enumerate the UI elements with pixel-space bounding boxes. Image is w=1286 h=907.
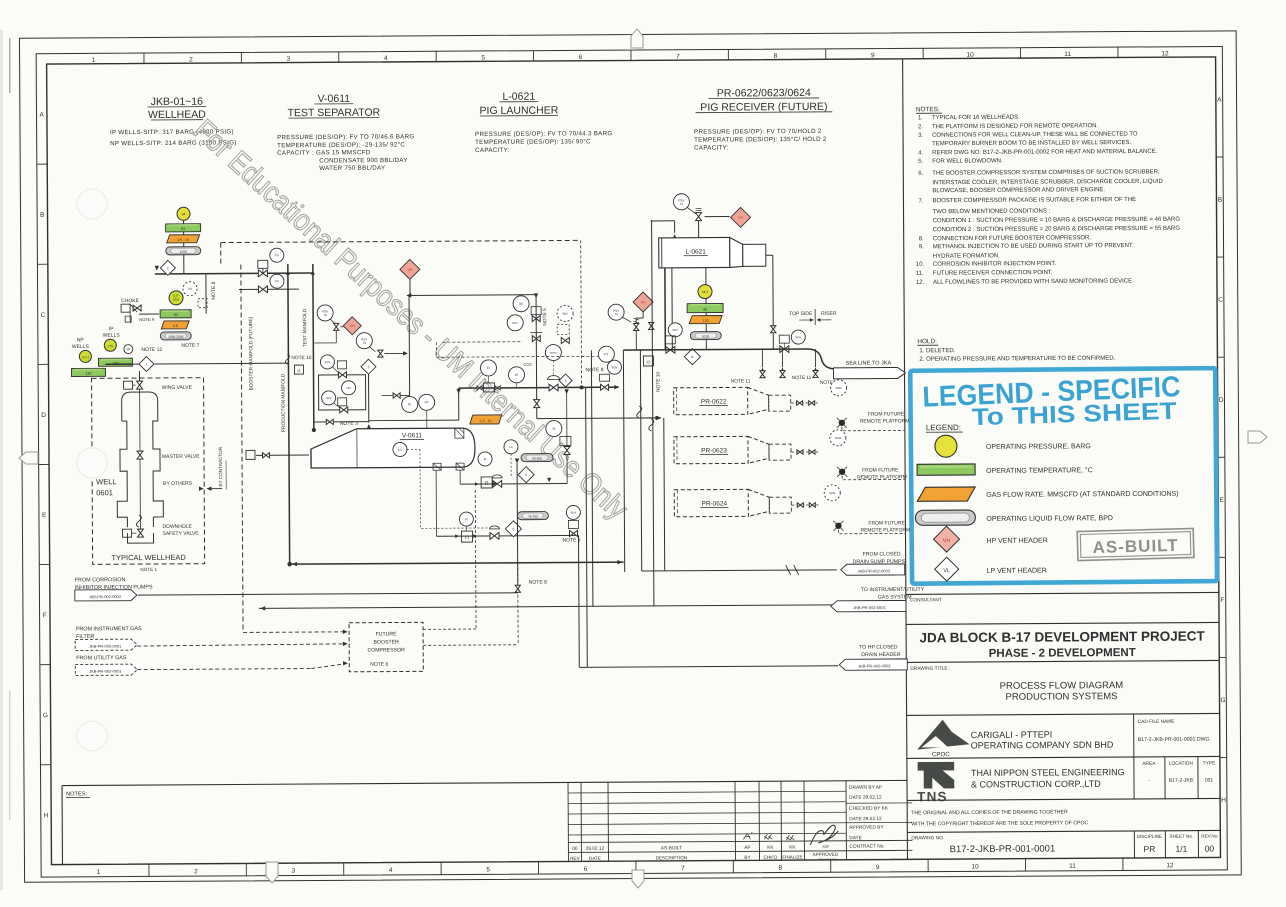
svg-text:CAD FILE NAME: CAD FILE NAME bbox=[1138, 719, 1175, 725]
temperature bar 93 bbox=[166, 224, 201, 232]
svg-text:12: 12 bbox=[1161, 50, 1169, 57]
svg-text:G: G bbox=[43, 712, 48, 719]
svg-text:NOTE 12: NOTE 12 bbox=[141, 347, 162, 353]
svg-text:AREA: AREA bbox=[1142, 761, 1156, 767]
wire flow stack riser bbox=[183, 221, 185, 274]
svg-text:PR-0624: PR-0624 bbox=[701, 500, 727, 507]
receiver PR-0622 dashed bbox=[674, 387, 748, 414]
closed drain line bbox=[642, 570, 837, 571]
wing valve bbox=[137, 381, 143, 385]
svg-text:CHECKED BY KK: CHECKED BY KK bbox=[849, 806, 889, 812]
legend gas flow rate symbol bbox=[917, 487, 975, 501]
svg-text:B17-2-JKB: B17-2-JKB bbox=[1169, 778, 1194, 784]
SDV bubble upper bbox=[320, 355, 334, 369]
svg-text:JKB-01~16: JKB-01~16 bbox=[151, 96, 203, 108]
svg-text:BY OTHERS: BY OTHERS bbox=[163, 481, 193, 487]
svg-text:7: 7 bbox=[676, 53, 680, 60]
svg-text:PR: PR bbox=[1143, 844, 1155, 854]
svg-text:3: 3 bbox=[367, 365, 369, 369]
svg-text:E: E bbox=[1220, 497, 1225, 504]
svg-text:THE PLATFORM IS DESIGNED FOR R: THE PLATFORM IS DESIGNED FOR REMOTE OPER… bbox=[932, 123, 1098, 130]
svg-text:TYPE: TYPE bbox=[1203, 761, 1216, 767]
approval signature bbox=[810, 825, 838, 845]
svg-text:70: 70 bbox=[680, 202, 684, 206]
svg-text:FI: FI bbox=[465, 517, 468, 521]
svg-text:L-0621: L-0621 bbox=[686, 249, 707, 256]
svg-text:SBV: SBV bbox=[562, 312, 568, 316]
svg-text:FI: FI bbox=[487, 366, 490, 370]
svg-text:DRAIN HEADER: DRAIN HEADER bbox=[861, 652, 900, 658]
svg-text:PRESSURE (DES/OP): FV TO 70/HO: PRESSURE (DES/OP): FV TO 70/HOLD 2 bbox=[694, 128, 822, 136]
svg-text:10: 10 bbox=[967, 52, 975, 59]
svg-text:AS-BUILT: AS-BUILT bbox=[661, 845, 682, 851]
svg-text:PI: PI bbox=[408, 403, 411, 407]
svg-text:6.: 6. bbox=[918, 171, 923, 177]
svg-text:ALL FLOWLINES TO BE PROVIDED W: ALL FLOWLINES TO BE PROVIDED WITH SAND M… bbox=[933, 278, 1134, 285]
svg-text:F: F bbox=[1220, 597, 1224, 604]
svg-text:8: 8 bbox=[691, 355, 693, 359]
svg-text:4: 4 bbox=[389, 867, 393, 874]
svg-text:PROCESS FLOW DIAGRAM: PROCESS FLOW DIAGRAM bbox=[1000, 680, 1124, 692]
svg-text:REV.No: REV.No bbox=[1201, 833, 1218, 838]
svg-text:B17-2-JKB-PR-001-0001: B17-2-JKB-PR-001-0001 bbox=[950, 843, 1056, 855]
wellhead tree outline bbox=[117, 392, 164, 543]
svg-text:PRESSURE (DES/OP): FV TO 70/44: PRESSURE (DES/OP): FV TO 70/44.3 BARG bbox=[475, 130, 612, 138]
scan edge artifacts bbox=[0, 30, 3, 890]
diamond note 1 bbox=[139, 356, 154, 371]
svg-text:IP: IP bbox=[109, 326, 114, 332]
svg-text:0.5 - 15: 0.5 - 15 bbox=[177, 238, 189, 242]
svg-text:2: 2 bbox=[194, 868, 198, 875]
dashed control line upper bbox=[442, 341, 522, 343]
svg-text:B: B bbox=[40, 212, 44, 219]
dashed feed C bbox=[137, 669, 311, 670]
svg-text:CHK'D: CHK'D bbox=[763, 855, 778, 860]
svg-text:29.02.12: 29.02.12 bbox=[586, 846, 605, 852]
svg-text:VL: VL bbox=[943, 568, 950, 574]
note 11 connection 2 bbox=[781, 349, 783, 367]
svg-text:11: 11 bbox=[1064, 51, 1071, 58]
svg-text:HOLD:: HOLD: bbox=[917, 338, 937, 345]
fold mark bottom bbox=[266, 862, 278, 883]
svg-text:2.: 2. bbox=[918, 124, 923, 130]
svg-text:NOTE 8: NOTE 8 bbox=[529, 580, 547, 586]
temperature bar 90 launcher bbox=[687, 304, 723, 313]
vent drop with dot bbox=[580, 240, 583, 384]
svg-text:4.: 4. bbox=[918, 150, 923, 156]
svg-text:TEMPORARY BURNER BOOM TO BE IN: TEMPORARY BURNER BOOM TO BE INSTALLED BY… bbox=[932, 140, 1131, 147]
svg-text:A: A bbox=[1217, 96, 1222, 103]
flow element on gas line bbox=[484, 383, 495, 392]
fold mark left bbox=[19, 452, 38, 464]
svg-text:SDM: SDM bbox=[835, 386, 842, 390]
svg-text:4: 4 bbox=[384, 55, 388, 62]
XV PCV riser bbox=[535, 295, 538, 388]
note 8 dashed drop bbox=[517, 563, 519, 583]
svg-text:COMPRESSOR: COMPRESSOR bbox=[367, 647, 405, 653]
punch hole top bbox=[77, 189, 107, 219]
PSV 70 bubble launcher bbox=[673, 194, 689, 210]
LC bubble bbox=[504, 440, 518, 454]
svg-text:APPROVED BY: APPROVED BY bbox=[849, 825, 884, 831]
svg-text:SDV: SDV bbox=[612, 365, 618, 369]
svg-text:WING VALVE: WING VALVE bbox=[162, 385, 193, 391]
svg-text:203.4: 203.4 bbox=[82, 355, 89, 359]
svg-text:BY CONTRACTOR: BY CONTRACTOR bbox=[218, 446, 223, 486]
svg-text:THE ORIGINAL AND ALL COPIES OF: THE ORIGINAL AND ALL COPIES OF THE DRAWI… bbox=[911, 809, 1068, 816]
svg-text:5: 5 bbox=[525, 473, 527, 477]
svg-text:SDM: SDM bbox=[835, 436, 842, 440]
svg-text:APPROVED: APPROVED bbox=[813, 852, 839, 857]
vessel top hatched box bbox=[455, 428, 464, 438]
svg-text:CPOC: CPOC bbox=[932, 751, 950, 758]
fold mark top bbox=[631, 29, 643, 48]
VH diamond mid bbox=[343, 317, 361, 335]
svg-text:94: 94 bbox=[182, 212, 186, 216]
svg-text:VH: VH bbox=[407, 268, 412, 272]
svg-text:JDA BLOCK B-17 DEVELOPMENT PRO: JDA BLOCK B-17 DEVELOPMENT PROJECT bbox=[919, 629, 1205, 646]
corrosion inhibitor riser bbox=[516, 463, 519, 593]
svg-text:90-900: 90-900 bbox=[532, 457, 542, 461]
svg-text:JKB-PR-002-0003: JKB-PR-002-0003 bbox=[857, 568, 890, 573]
svg-text:PIG LAUNCHER: PIG LAUNCHER bbox=[479, 105, 558, 117]
vent valve bbox=[634, 324, 639, 328]
svg-text:PRODUCTION MANIFOLD: PRODUCTION MANIFOLD bbox=[281, 373, 287, 432]
wire psv2 to riser bbox=[384, 352, 406, 354]
hp closed drain route bbox=[577, 535, 580, 667]
downhole safety valve bbox=[137, 529, 143, 533]
svg-text:JKB-PR-002-0001: JKB-PR-002-0001 bbox=[853, 605, 886, 610]
svg-text:SDV: SDV bbox=[325, 360, 331, 364]
receiver train 1 bbox=[791, 402, 818, 404]
legend liquid flow rate symbol bbox=[915, 510, 975, 525]
svg-text:70: 70 bbox=[614, 312, 618, 316]
svg-text:PRODUCTION SYSTEMS: PRODUCTION SYSTEMS bbox=[1006, 691, 1118, 703]
wire wells flowline to manifold bbox=[154, 362, 288, 365]
svg-text:JKB-PR-002-0002: JKB-PR-002-0002 bbox=[89, 594, 122, 599]
svg-text:C: C bbox=[41, 312, 46, 319]
svg-text:THAI NIPPON STEEL ENGINEERING: THAI NIPPON STEEL ENGINEERING bbox=[971, 767, 1125, 778]
dashed SBV bubble bbox=[557, 305, 573, 321]
right row letter band bbox=[1216, 156, 1223, 158]
punch hole middle bbox=[77, 448, 107, 478]
svg-text:OPERATING LIQUID FLOW RATE, BP: OPERATING LIQUID FLOW RATE, BPD bbox=[986, 515, 1113, 523]
svg-text:CONSULTANT: CONSULTANT bbox=[910, 597, 942, 603]
test area dashed boundary bbox=[221, 240, 580, 242]
arrow line into risers bbox=[628, 417, 661, 419]
svg-text:LOCATION: LOCATION bbox=[1169, 761, 1194, 767]
svg-text:SHEET No.: SHEET No. bbox=[1169, 834, 1193, 839]
svg-text:4: 4 bbox=[565, 379, 567, 383]
svg-text:3-8: 3-8 bbox=[173, 324, 178, 328]
svg-text:DATE 29.02.12: DATE 29.02.12 bbox=[849, 816, 882, 822]
svg-text:001: 001 bbox=[1205, 778, 1214, 784]
dashed manifold drop bbox=[474, 490, 477, 629]
svg-text:SDV: SDV bbox=[326, 396, 332, 400]
temperature bar 110 bbox=[71, 368, 105, 376]
svg-text:AS-BUILT: AS-BUILT bbox=[1092, 536, 1179, 557]
svg-text:TEMPERATURE (DES/OP): 135/ 90°: TEMPERATURE (DES/OP): 135/ 90°C bbox=[475, 138, 591, 146]
svg-text:SDV: SDV bbox=[672, 328, 678, 332]
manifold inlet arrows bbox=[286, 271, 289, 275]
legend operating temperature symbol bbox=[917, 464, 975, 475]
svg-text:PR-0623: PR-0623 bbox=[701, 447, 727, 454]
long utility line bbox=[259, 605, 833, 609]
valve on riser 652 bbox=[649, 322, 654, 326]
wire vertical gas header A bbox=[586, 387, 588, 667]
svg-text:20.0: 20.0 bbox=[173, 298, 179, 302]
riser line 1 bbox=[623, 350, 624, 572]
top grid number band ticks and numbers bbox=[143, 53, 145, 63]
svg-text:JKB-PR-002-0001: JKB-PR-002-0001 bbox=[89, 669, 122, 674]
svg-text:5: 5 bbox=[486, 866, 490, 873]
svg-text:LP VENT HEADER: LP VENT HEADER bbox=[987, 568, 1047, 575]
liquid flow pill 1000-2500 bbox=[160, 332, 191, 340]
wellhead centerline bbox=[139, 381, 142, 530]
svg-text:JKB-PR-002-0001: JKB-PR-002-0001 bbox=[89, 644, 122, 649]
svg-text:VH: VH bbox=[641, 300, 646, 304]
svg-text:3: 3 bbox=[292, 868, 296, 875]
svg-text:FROM FUTURE: FROM FUTURE bbox=[862, 467, 899, 473]
svg-text:KK: KK bbox=[789, 845, 796, 851]
svg-text:DRAWING TITLE :: DRAWING TITLE : bbox=[910, 666, 950, 672]
svg-text:TYPICAL FOR 16 WELLHEADS.: TYPICAL FOR 16 WELLHEADS. bbox=[932, 115, 1020, 122]
svg-text:275: 275 bbox=[108, 344, 114, 348]
svg-text:NOTE 8: NOTE 8 bbox=[585, 367, 603, 373]
pressure bubble 94 bbox=[177, 207, 190, 220]
PDRC bubble top bbox=[545, 344, 561, 360]
svg-text:C: C bbox=[1218, 297, 1223, 304]
svg-text:WELLS: WELLS bbox=[103, 333, 121, 339]
svg-text:NOTE 10: NOTE 10 bbox=[291, 355, 311, 361]
svg-text:REMOTE PLATFORM: REMOTE PLATFORM bbox=[860, 418, 910, 424]
PT bubble bbox=[419, 394, 435, 410]
svg-text:NOTE 6: NOTE 6 bbox=[370, 662, 388, 668]
svg-text:PT: PT bbox=[425, 401, 429, 405]
diamond 3 bbox=[361, 359, 376, 374]
svg-text:WELLHEAD: WELLHEAD bbox=[148, 109, 206, 121]
main sea line bbox=[623, 349, 809, 350]
note 11 connection 1 bbox=[761, 349, 763, 367]
svg-text:FROM INSTRUMENT GAS: FROM INSTRUMENT GAS bbox=[76, 626, 142, 632]
svg-text:FI: FI bbox=[484, 457, 487, 461]
svg-text:B17-2-JKB-PR-001-0001.DWG: B17-2-JKB-PR-001-0001.DWG bbox=[1138, 737, 1210, 743]
drawn-by block bbox=[846, 802, 912, 804]
svg-text:L-0621: L-0621 bbox=[502, 91, 535, 103]
svg-text:8: 8 bbox=[778, 865, 782, 872]
svg-text:AT: AT bbox=[515, 373, 519, 377]
wire psv1 tail bbox=[335, 331, 337, 343]
svg-text:11.: 11. bbox=[916, 271, 924, 277]
svg-text:2. OPERATING PRESSURE AND TEM: 2. OPERATING PRESSURE AND TEMPERATURE TO… bbox=[919, 356, 1115, 363]
svg-text:90: 90 bbox=[174, 313, 178, 317]
svg-text:75-750: 75-750 bbox=[528, 515, 538, 519]
valve launcher right bbox=[780, 346, 785, 353]
svg-text:NOTE 10: NOTE 10 bbox=[655, 372, 661, 392]
svg-text:LEGEND:: LEGEND: bbox=[926, 423, 961, 432]
svg-text:METHANOL INJECTION TO BE USED: METHANOL INJECTION TO BE USED DURING STA… bbox=[933, 243, 1133, 250]
wire stub under flowline bbox=[205, 274, 207, 314]
riser line 3 bbox=[652, 220, 654, 606]
svg-text:0601: 0601 bbox=[96, 488, 113, 497]
svg-text:1000-2500: 1000-2500 bbox=[168, 335, 183, 339]
svg-text:PCV: PCV bbox=[512, 321, 518, 325]
receiver train 3 bbox=[791, 504, 818, 506]
valve on flowline bbox=[258, 270, 263, 277]
svg-text:CORROSION INHIBITOR INJECTION: CORROSION INHIBITOR INJECTION POINT. bbox=[933, 261, 1057, 268]
branch down to SI bbox=[566, 389, 569, 483]
control valve lower bbox=[490, 533, 495, 540]
svg-text:CONNECTION FOR FUTURE BOOSTER: CONNECTION FOR FUTURE BOOSTER COMPRESSOR… bbox=[933, 235, 1092, 242]
svg-text:A: A bbox=[40, 112, 45, 119]
svg-text:DATE: DATE bbox=[589, 856, 601, 861]
svg-text:SEA LINE TO JKA: SEA LINE TO JKA bbox=[845, 360, 891, 366]
svg-text:TO INSTRUMENT/UTILITY: TO INSTRUMENT/UTILITY bbox=[861, 587, 925, 593]
svg-text:WATER 750 BBL/DAY: WATER 750 BBL/DAY bbox=[319, 165, 385, 172]
receiver train 2 bbox=[791, 451, 818, 453]
pill 75-750 bbox=[517, 512, 548, 520]
svg-text:CONTRACTOR: CONTRACTOR bbox=[818, 857, 836, 861]
valve on end line bbox=[771, 326, 776, 330]
svg-text:TEMPERATURE (DES/OP): -29-135/: TEMPERATURE (DES/OP): -29-135/ 92°C bbox=[277, 141, 405, 149]
svg-text:FUTURE RECEIVER CONNECTION POI: FUTURE RECEIVER CONNECTION POINT. bbox=[933, 270, 1053, 277]
dashed XV bubble bbox=[183, 282, 197, 296]
svg-text:NOTE 8: NOTE 8 bbox=[211, 281, 217, 299]
svg-text:44.3: 44.3 bbox=[702, 290, 709, 294]
wire psv to vessel bbox=[698, 221, 700, 238]
SDV skid box bbox=[319, 375, 366, 410]
reviewer initials scribbles bbox=[743, 832, 752, 839]
PSV 70 bubble vent bbox=[608, 304, 624, 320]
svg-text:Π: Π bbox=[485, 481, 489, 487]
svg-text:REMOTE PLATFORM: REMOTE PLATFORM bbox=[860, 527, 910, 533]
svg-text:9: 9 bbox=[876, 864, 880, 871]
wire wells to diamond bbox=[105, 363, 132, 365]
svg-text:TEST SEPARATOR: TEST SEPARATOR bbox=[288, 107, 381, 120]
svg-text:00: 00 bbox=[1205, 844, 1215, 854]
svg-text:1/1: 1/1 bbox=[1175, 844, 1187, 854]
note 3 valve bbox=[314, 421, 369, 423]
svg-text:JKB-PR-002-0003: JKB-PR-002-0003 bbox=[858, 663, 891, 668]
svg-text:1: 1 bbox=[92, 57, 96, 64]
svg-text:5.: 5. bbox=[918, 159, 923, 165]
svg-text:2: 2 bbox=[189, 56, 193, 63]
pill 90-900 bbox=[521, 454, 553, 462]
relief valve launcher bbox=[696, 213, 702, 217]
svg-text:SSP: SSP bbox=[822, 845, 830, 849]
svg-text:6: 6 bbox=[579, 54, 583, 61]
svg-text:CAPACITY : GAS 15 MMSCFD: CAPACITY : GAS 15 MMSCFD bbox=[277, 149, 371, 157]
revision table bbox=[568, 791, 846, 793]
svg-text:NOTE 5: NOTE 5 bbox=[542, 308, 548, 326]
svg-text:NOTES:: NOTES: bbox=[66, 791, 87, 797]
svg-text:7.: 7. bbox=[918, 198, 923, 204]
svg-text:PHASE - 2 DEVELOPMENT: PHASE - 2 DEVELOPMENT bbox=[989, 647, 1136, 660]
wire diamond to tree bbox=[138, 371, 140, 381]
wire vertical gas header B bbox=[591, 350, 593, 606]
level valve bbox=[493, 481, 498, 488]
svg-text:SP: SP bbox=[126, 347, 130, 351]
svg-text:9.: 9. bbox=[919, 244, 924, 250]
lateral to risers bbox=[537, 417, 660, 420]
svg-text:FROM FUTURE: FROM FUTURE bbox=[868, 520, 905, 526]
svg-text:GAS SYSTEM: GAS SYSTEM bbox=[878, 594, 912, 600]
svg-text:CAPACITY:: CAPACITY: bbox=[475, 147, 510, 154]
SP bubble and note 12 bbox=[124, 345, 133, 354]
svg-text:70: 70 bbox=[363, 341, 367, 345]
svg-text:RISER: RISER bbox=[821, 311, 837, 317]
svg-text:CONDENSATE 900 BBL/DAY: CONDENSATE 900 BBL/DAY bbox=[319, 157, 408, 165]
svg-text:D: D bbox=[1219, 397, 1224, 404]
svg-text:WELL: WELL bbox=[96, 477, 116, 486]
master valve bbox=[137, 451, 143, 455]
TNS logo bbox=[918, 762, 954, 788]
SDV on gas line bbox=[607, 360, 621, 374]
flow element box lower bbox=[461, 531, 472, 542]
wire corrosion inhibitor line bbox=[138, 593, 518, 595]
production manifold line bbox=[288, 264, 290, 564]
svg-text:TYPICAL WELLHEAD: TYPICAL WELLHEAD bbox=[111, 553, 186, 562]
svg-text:NOTE 9: NOTE 9 bbox=[139, 317, 155, 322]
control valve with diaphragm bbox=[549, 384, 554, 391]
note 11 connection 3 bbox=[814, 349, 816, 367]
svg-text:PDRC: PDRC bbox=[550, 352, 557, 355]
svg-text:TEMPERATURE (DES/OP): 135°C/: TEMPERATURE (DES/OP): 135°C/ HOLD 2 bbox=[694, 136, 827, 144]
vessel boot boxes bbox=[433, 463, 441, 470]
svg-text:H: H bbox=[1221, 797, 1226, 804]
riser line 2 bbox=[640, 350, 641, 571]
svg-text:CONNECTIONS FOR WELL CLEAN-UP.: CONNECTIONS FOR WELL CLEAN-UP. THESE WIL… bbox=[932, 131, 1138, 138]
HP vent diamond VH bbox=[409, 279, 411, 295]
svg-text:VH: VH bbox=[943, 538, 951, 544]
wire vent riser 410 bbox=[408, 295, 411, 395]
svg-text:11: 11 bbox=[1069, 863, 1076, 870]
svg-text:8: 8 bbox=[774, 53, 778, 60]
long header line lower bbox=[290, 562, 624, 564]
svg-text:93: 93 bbox=[181, 227, 185, 231]
liquid flow pill 1650 bbox=[166, 247, 201, 255]
svg-text:1650: 1650 bbox=[180, 250, 187, 254]
svg-text:SI: SI bbox=[552, 427, 555, 431]
receiver PR-0623 dashed bbox=[674, 436, 748, 463]
svg-text:OPERATING TEMPERATURE, °C: OPERATING TEMPERATURE, °C bbox=[986, 466, 1093, 475]
svg-text:CI: CI bbox=[646, 359, 650, 364]
svg-text:12: 12 bbox=[1166, 862, 1174, 869]
svg-text:1: 1 bbox=[145, 362, 147, 366]
svg-text:BOOSTER MANIFOLD (FUTURE): BOOSTER MANIFOLD (FUTURE) bbox=[248, 316, 254, 390]
water outlet branch bbox=[436, 534, 578, 537]
gas flow tag 0.5-15 bbox=[167, 235, 200, 243]
svg-text:F: F bbox=[43, 612, 47, 619]
diamond note 2 bbox=[160, 260, 175, 275]
svg-text:5: 5 bbox=[481, 55, 485, 62]
svg-text:NOTE 7: NOTE 7 bbox=[181, 343, 199, 349]
wire launcher outlet legs bbox=[664, 268, 667, 350]
fold mark bottom center bbox=[632, 870, 644, 888]
svg-text:2: 2 bbox=[167, 266, 169, 270]
vent line to VH header bbox=[407, 294, 536, 297]
svg-text:TOP SIDE: TOP SIDE bbox=[789, 311, 813, 317]
svg-text:CAPACITY:: CAPACITY: bbox=[694, 144, 729, 151]
pressure bubble 6.0-20.0 bbox=[169, 291, 183, 305]
svg-text:REV: REV bbox=[570, 856, 580, 861]
injection valve into vessel bbox=[256, 454, 309, 456]
svg-text:DRAWING NO.: DRAWING NO. bbox=[911, 835, 944, 841]
svg-text:1: 1 bbox=[97, 869, 101, 876]
svg-text:6: 6 bbox=[512, 527, 514, 531]
svg-text:HP VENT HEADER: HP VENT HEADER bbox=[987, 538, 1048, 545]
svg-text:FOR WELL BLOWDOWN.: FOR WELL BLOWDOWN. bbox=[932, 158, 1003, 164]
